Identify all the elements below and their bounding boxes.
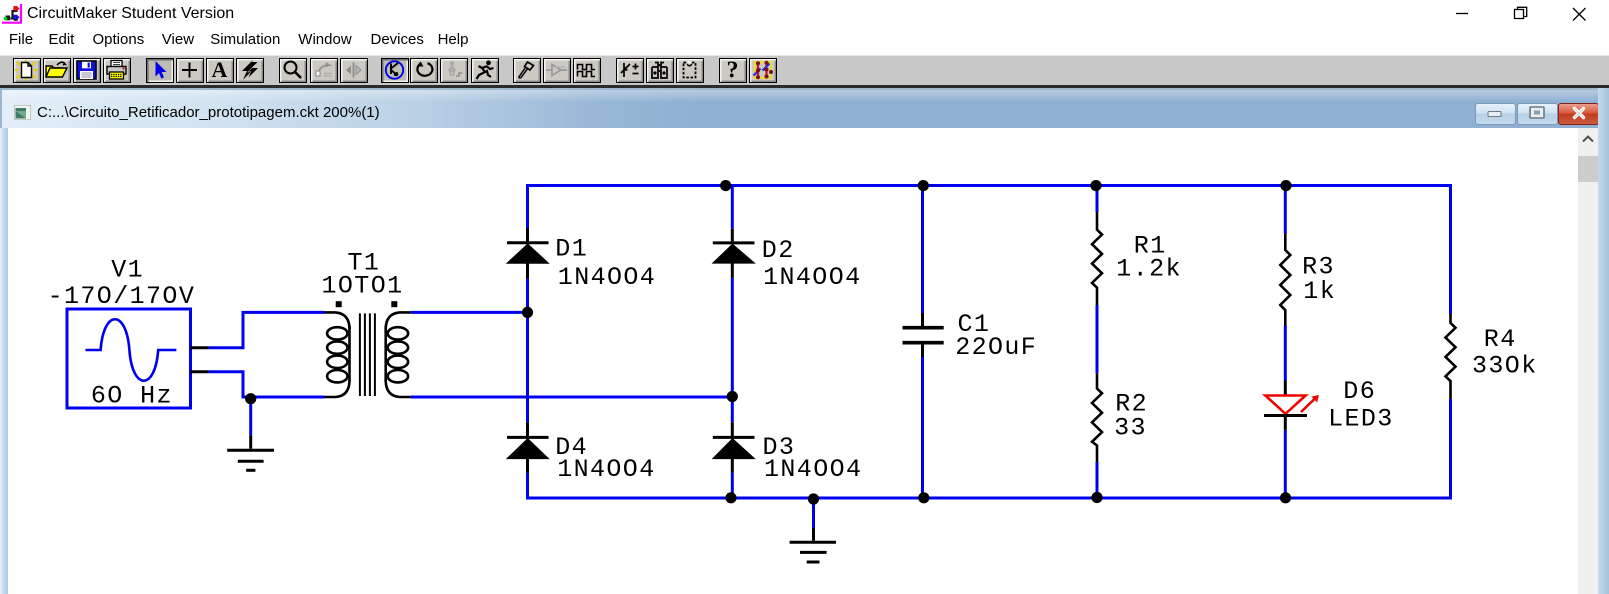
svg-text:V1: V1: [111, 255, 144, 284]
wire bottom rail: [528, 497, 1451, 500]
wire right bridge branch: [731, 186, 734, 500]
wire R3 D6 branch: [1284, 186, 1287, 500]
wire V1 to T1 upper: [209, 311, 325, 349]
svg-text:1N4OO4: 1N4OO4: [557, 455, 655, 484]
node dot secondary top: [522, 307, 533, 318]
node dot top R3: [1280, 180, 1291, 191]
node dot ground 1: [245, 393, 256, 404]
wire ground 1 drop: [249, 397, 252, 435]
menu bar: [0, 28, 1609, 55]
svg-text:D1: D1: [555, 234, 588, 263]
wire secondary bottom: [411, 396, 733, 399]
node dot secondary bottom: [727, 391, 738, 402]
svg-text:LED3: LED3: [1328, 405, 1394, 434]
svg-text:R4: R4: [1484, 325, 1517, 354]
diode D1: [507, 228, 549, 279]
node dot bottom C1: [918, 492, 929, 503]
ground 2: [790, 528, 836, 562]
resistor R1: [1092, 212, 1102, 305]
svg-text:-17O/17OV: -17O/17OV: [48, 282, 196, 311]
svg-text:1N4OO4: 1N4OO4: [558, 263, 656, 292]
svg-text:6O Hz: 6O Hz: [91, 382, 173, 411]
svg-text:33Ok: 33Ok: [1472, 352, 1538, 381]
svg-text:22OuF: 22OuF: [955, 333, 1037, 362]
svg-text:33: 33: [1114, 413, 1147, 442]
ground 1: [227, 435, 274, 470]
resistor R2: [1092, 373, 1102, 462]
wire ground 2 drop: [812, 498, 815, 528]
resistor R3: [1280, 234, 1290, 326]
app title bar: [0, 0, 1609, 28]
resistor R4: [1446, 314, 1456, 399]
node dot top D2: [720, 180, 731, 191]
transformer T1: [325, 303, 411, 398]
wire R1 R2 branch: [1096, 186, 1099, 500]
node dot top R1: [1090, 180, 1101, 191]
node dot bottom R2: [1091, 492, 1102, 503]
svg-text:1N4OO4: 1N4OO4: [763, 263, 861, 292]
LED D6: [1264, 381, 1319, 430]
wire V1 to T1 lower: [209, 370, 325, 397]
capacitor C1: [903, 313, 944, 357]
svg-text:1.2k: 1.2k: [1116, 255, 1182, 284]
svg-text:D2: D2: [762, 236, 795, 265]
svg-text:1k: 1k: [1303, 277, 1336, 306]
svg-text:D6: D6: [1343, 377, 1376, 406]
window caption buttons: [1440, 0, 1609, 28]
diode D2: [713, 229, 755, 278]
svg-text:1N4OO4: 1N4OO4: [764, 455, 862, 484]
node dot bottom D3: [725, 492, 736, 503]
diode D4: [507, 422, 549, 473]
wire C1 branch: [921, 186, 924, 500]
node dot ground 2: [808, 493, 819, 504]
node dot bottom D6: [1280, 492, 1291, 503]
toolbar: [0, 55, 1609, 86]
wire R4 branch: [1449, 184, 1452, 500]
doc caption buttons: [1475, 103, 1516, 125]
wire secondary top: [411, 311, 528, 314]
wire top rail: [528, 184, 1451, 187]
node dot top C1: [918, 180, 929, 191]
voltage source V1: [67, 309, 191, 408]
diode D3: [713, 422, 755, 473]
svg-text:1OTO1: 1OTO1: [322, 271, 404, 300]
wire left bridge branch: [526, 184, 529, 500]
